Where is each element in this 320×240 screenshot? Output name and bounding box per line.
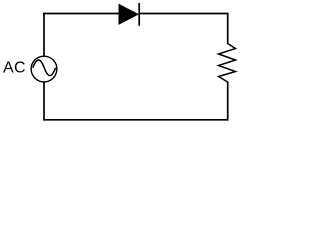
AC source circle <box>31 56 57 82</box>
wire left rail lower <box>43 82 45 120</box>
wire right rail lower <box>227 82 229 121</box>
wire bottom rail <box>43 119 228 121</box>
wire top-right segment <box>139 13 228 15</box>
wire left rail upper <box>43 13 45 56</box>
wire right rail upper <box>227 13 229 44</box>
wire top-left segment <box>43 13 119 15</box>
diode anode triangle <box>119 5 138 25</box>
diode cathode bar <box>138 3 140 26</box>
resistor zigzag <box>219 44 236 83</box>
svg-text:AC: AC <box>3 60 26 77</box>
AC source sine wave <box>33 60 56 76</box>
